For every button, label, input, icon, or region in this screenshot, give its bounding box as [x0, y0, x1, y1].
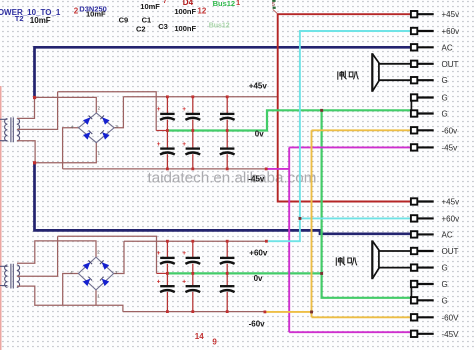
terminal -45v (1): [411, 144, 434, 150]
svg-text:100nF: 100nF: [174, 24, 196, 33]
svg-text:Bus12: Bus12: [209, 23, 230, 30]
svg-text:OUT: OUT: [442, 60, 459, 69]
svg-text:C2: C2: [136, 25, 146, 34]
terminal +45v (1): [411, 11, 434, 17]
0v rail stub section2: [157, 272, 168, 274]
terminal G (1b): [411, 94, 434, 100]
wire T2 center tap riser: [17, 92, 58, 130]
svg-text:+45v: +45v: [442, 198, 460, 207]
svg-text:2: 2: [74, 7, 79, 16]
wire T3 center tap riser: [17, 236, 58, 276]
svg-text:-45v: -45v: [248, 175, 265, 184]
terminal OUT (1): [411, 61, 434, 67]
terminal -60v (1): [411, 127, 434, 133]
svg-text:G: G: [442, 76, 448, 85]
svg-text:0v: 0v: [255, 130, 264, 139]
svg-text:Bus12: Bus12: [213, 0, 236, 8]
label speaker 1 (la ba glyphs): [338, 71, 359, 80]
svg-text:+45v: +45v: [442, 10, 460, 19]
terminal G (2c): [411, 297, 434, 303]
terminal AC (1): [411, 44, 434, 50]
svg-text:G: G: [442, 264, 448, 273]
speaker LS2: [372, 240, 411, 279]
svg-text:T2: T2: [15, 14, 24, 23]
wire bridge B2 bottom lead: [95, 290, 97, 305]
wire bridge B2 + output riser: [114, 241, 124, 273]
wire bridge B1 - output drop: [63, 128, 79, 169]
wire T3 bottom lead to bridge B2 bottom: [17, 286, 123, 312]
svg-text:+: +: [157, 106, 161, 113]
svg-text:+: +: [157, 141, 161, 148]
svg-text:14: 14: [195, 332, 204, 341]
svg-text:9: 9: [212, 338, 217, 347]
capacitor column C-b2: [192, 241, 194, 311]
terminal +60v (2): [411, 215, 434, 221]
capacitor column C-b1: [166, 241, 168, 311]
wire -60v rail: [123, 311, 265, 313]
capacitor column C-a3: [226, 97, 228, 169]
label speaker 2 (la ba glyphs): [336, 257, 357, 266]
terminal -60V (2): [411, 314, 434, 320]
wire node B to bridge B1 bottom (AC): [35, 143, 97, 163]
wire T3 top lead to bridge B2 top: [17, 241, 96, 263]
svg-text:+: +: [182, 250, 186, 257]
wire top -45v rail: [63, 168, 267, 170]
wire bridge B2 - output drop: [63, 274, 79, 306]
navy AC bus: [35, 47, 411, 234]
terminal G (1a): [411, 77, 434, 83]
svg-text:+: +: [182, 141, 186, 148]
wire center-tap rail to 0v: [58, 92, 157, 131]
wire T2 secondary bottom lead to navy node: [17, 141, 35, 163]
svg-text:-60v: -60v: [442, 126, 458, 135]
capacitor column C-a2: [192, 97, 194, 169]
svg-text:10mF: 10mF: [86, 10, 106, 19]
speaker LS1: [372, 53, 411, 92]
svg-text:+60v: +60v: [442, 214, 460, 223]
svg-text:+: +: [157, 279, 161, 286]
svg-text:C1: C1: [142, 16, 152, 25]
svg-text:10mF: 10mF: [140, 2, 160, 11]
net +45v (dark red): [278, 14, 411, 201]
svg-text:AC: AC: [442, 43, 453, 52]
svg-text:12: 12: [197, 7, 206, 16]
svg-text:7: 7: [163, 0, 167, 5]
svg-text:+60v: +60v: [442, 27, 460, 36]
net label 5 leader: [273, 9, 278, 13]
photo edge artifact left: [0, 86, 2, 350]
svg-text:C9: C9: [119, 16, 129, 25]
svg-text:G: G: [442, 280, 448, 289]
wire bridge B1 + output to top rail: [114, 97, 123, 128]
bridge rectifier B2: [70, 250, 118, 299]
svg-text:D4: D4: [183, 0, 194, 7]
terminal G (1c): [411, 110, 434, 116]
wire +60v rail: [124, 240, 266, 242]
svg-text:-45V: -45V: [442, 330, 460, 339]
capacitor column C-a1: [166, 97, 168, 169]
terminal AC (2): [411, 231, 434, 237]
net -60v (orange): [265, 130, 411, 317]
svg-text:+: +: [182, 279, 186, 286]
bridge rectifier B1: [71, 106, 119, 156]
svg-text:G: G: [442, 94, 448, 103]
terminal G (2b): [411, 281, 434, 287]
wire node A to bridge B1 top (AC): [35, 97, 97, 113]
svg-text:AC: AC: [442, 230, 453, 239]
svg-text:10mF: 10mF: [30, 16, 51, 25]
svg-text:+45v: +45v: [249, 82, 268, 91]
G pair bracket top: [410, 98, 412, 114]
svg-text:-45v: -45v: [442, 143, 458, 152]
capacitor column C-b3: [226, 241, 228, 311]
transformer T2 (top): [0, 117, 20, 142]
wire center-tap rail 2 to 0v: [58, 236, 157, 273]
net +60v (cyan): [266, 31, 410, 241]
terminal G (2a): [411, 264, 434, 270]
svg-text:+: +: [157, 250, 161, 257]
svg-text:+60v: +60v: [249, 248, 268, 257]
terminal OUT (2): [411, 248, 434, 254]
wire T2 secondary top lead to navy node: [17, 97, 35, 118]
wire top +45v rail: [123, 96, 277, 98]
terminal +45v (2): [411, 198, 434, 204]
G pair bracket bottom: [410, 284, 412, 300]
svg-text:-60V: -60V: [442, 313, 460, 322]
svg-text:1: 1: [236, 0, 240, 7]
terminal +60v (1): [411, 28, 434, 34]
svg-text:0v: 0v: [254, 274, 263, 283]
net -45v (magenta): [266, 147, 411, 332]
svg-text:taidatech.en.alibaba.com: taidatech.en.alibaba.com: [148, 170, 317, 187]
svg-text:-60v: -60v: [249, 320, 266, 329]
transformer T3 (bottom): [0, 264, 20, 289]
svg-text:+: +: [182, 106, 186, 113]
terminal -45V (2): [411, 331, 434, 337]
svg-text:100nF: 100nF: [174, 7, 196, 16]
svg-text:C3: C3: [158, 22, 168, 31]
svg-text:G: G: [442, 110, 448, 119]
net 0v / G (green): [167, 110, 411, 297]
svg-text:G: G: [442, 296, 448, 305]
0v rail stub section1: [156, 130, 167, 132]
svg-text:OUT: OUT: [442, 247, 459, 256]
